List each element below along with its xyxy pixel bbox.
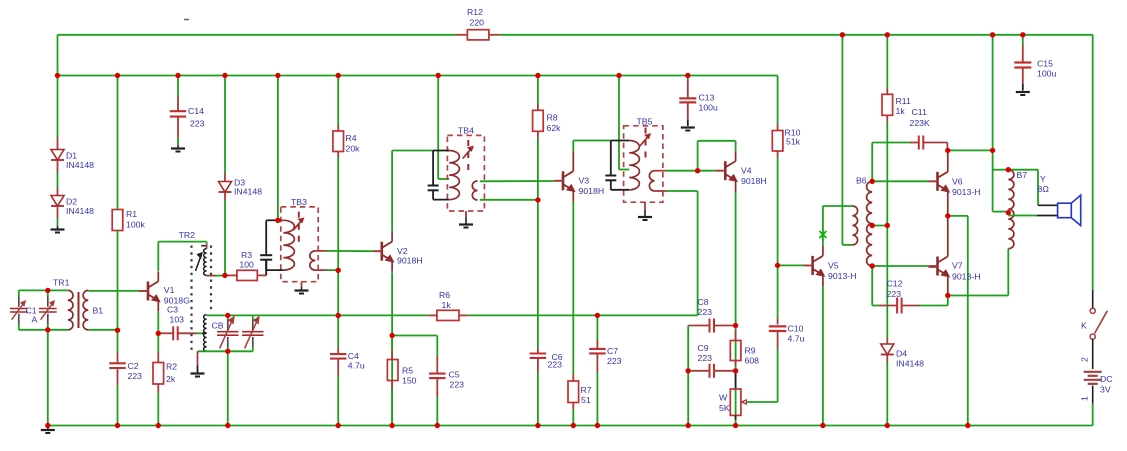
svg-text:K: K (1081, 321, 1087, 331)
svg-text:IN4148: IN4148 (234, 187, 262, 197)
svg-text:R7: R7 (581, 385, 592, 395)
svg-text:C10: C10 (788, 324, 804, 334)
svg-text:R6: R6 (439, 290, 450, 300)
svg-text:R4: R4 (346, 133, 357, 143)
svg-text:223: 223 (548, 360, 563, 370)
svg-text:5K: 5K (719, 403, 730, 413)
svg-text:3V: 3V (1100, 385, 1111, 395)
svg-text:DC: DC (1100, 374, 1113, 384)
svg-text:C5: C5 (449, 370, 460, 380)
svg-text:9018H: 9018H (579, 186, 605, 196)
svg-text:C14: C14 (188, 106, 204, 116)
svg-text:TR2: TR2 (179, 230, 196, 240)
svg-text:IN4148: IN4148 (896, 359, 924, 369)
svg-text:A: A (32, 315, 38, 325)
svg-text:IN4148: IN4148 (66, 160, 94, 170)
svg-text:R5: R5 (402, 366, 413, 376)
svg-text:223: 223 (607, 356, 622, 366)
svg-text:W: W (719, 393, 728, 403)
svg-text:223: 223 (190, 119, 205, 129)
svg-text:TB5: TB5 (637, 117, 653, 127)
svg-text:4.7u: 4.7u (788, 334, 805, 344)
svg-text:1: 1 (1080, 396, 1090, 401)
svg-text:IN4148: IN4148 (66, 206, 94, 216)
svg-text:608: 608 (745, 356, 760, 366)
svg-text:R9: R9 (745, 346, 756, 356)
svg-text:C15: C15 (1037, 59, 1053, 69)
svg-text:V1: V1 (164, 285, 175, 295)
svg-text:1k: 1k (896, 106, 906, 116)
svg-text:TB4: TB4 (458, 126, 474, 136)
svg-text:1k: 1k (442, 300, 452, 310)
svg-text:C13: C13 (699, 93, 715, 103)
svg-text:B7: B7 (1017, 170, 1028, 180)
svg-text:R1: R1 (126, 209, 137, 219)
svg-text:R12: R12 (467, 7, 483, 17)
svg-text:223: 223 (698, 307, 713, 317)
svg-text:51: 51 (581, 395, 591, 405)
svg-text:V3: V3 (579, 176, 590, 186)
svg-text:C11: C11 (912, 107, 927, 117)
svg-text:62k: 62k (547, 123, 562, 133)
svg-text:9013-H: 9013-H (952, 187, 981, 197)
svg-text:TR1: TR1 (53, 277, 70, 287)
svg-text:TB3: TB3 (291, 197, 307, 207)
svg-text:223: 223 (887, 289, 902, 299)
svg-text:223: 223 (698, 353, 713, 363)
svg-text:220: 220 (470, 18, 485, 28)
svg-text:223: 223 (450, 380, 465, 390)
svg-text:B1: B1 (93, 306, 104, 316)
svg-text:R11: R11 (896, 96, 911, 106)
svg-text:8Ω: 8Ω (1038, 184, 1050, 194)
svg-text:C2: C2 (128, 361, 139, 371)
svg-text:V5: V5 (828, 261, 839, 271)
svg-text:V4: V4 (741, 166, 752, 176)
svg-text:100k: 100k (126, 220, 145, 230)
svg-text:2k: 2k (166, 374, 176, 384)
svg-text:100u: 100u (699, 103, 718, 113)
svg-text:C3: C3 (167, 305, 178, 315)
svg-text:C7: C7 (607, 346, 618, 356)
svg-text:223K: 223K (910, 118, 930, 128)
svg-text:20k: 20k (346, 144, 361, 154)
svg-text:2: 2 (1080, 357, 1090, 362)
svg-text:100: 100 (239, 259, 254, 269)
svg-text:V7: V7 (952, 261, 963, 271)
svg-text:CB: CB (212, 321, 224, 331)
svg-text:D1: D1 (66, 151, 77, 161)
svg-text:C8: C8 (698, 297, 709, 307)
svg-text:D2: D2 (66, 197, 77, 207)
svg-text:9013-H: 9013-H (952, 272, 981, 282)
svg-text:C12: C12 (887, 279, 903, 289)
svg-text:Y: Y (1040, 174, 1046, 184)
svg-text:C9: C9 (698, 343, 709, 353)
svg-text:R8: R8 (547, 113, 558, 123)
svg-text:150: 150 (402, 376, 417, 386)
svg-text:9018H: 9018H (741, 176, 767, 186)
svg-text:51k: 51k (786, 137, 801, 147)
svg-text:223: 223 (128, 371, 143, 381)
svg-text:4.7u: 4.7u (348, 361, 365, 371)
svg-text:9018H: 9018H (397, 255, 423, 265)
svg-text:103: 103 (170, 315, 185, 325)
svg-text:9013-H: 9013-H (828, 271, 857, 281)
svg-text:B6: B6 (856, 176, 867, 186)
svg-text:R2: R2 (166, 362, 177, 372)
svg-text:C4: C4 (348, 351, 359, 361)
svg-text:V6: V6 (952, 177, 963, 187)
svg-text:100u: 100u (1037, 69, 1056, 79)
svg-text:D4: D4 (896, 349, 907, 359)
